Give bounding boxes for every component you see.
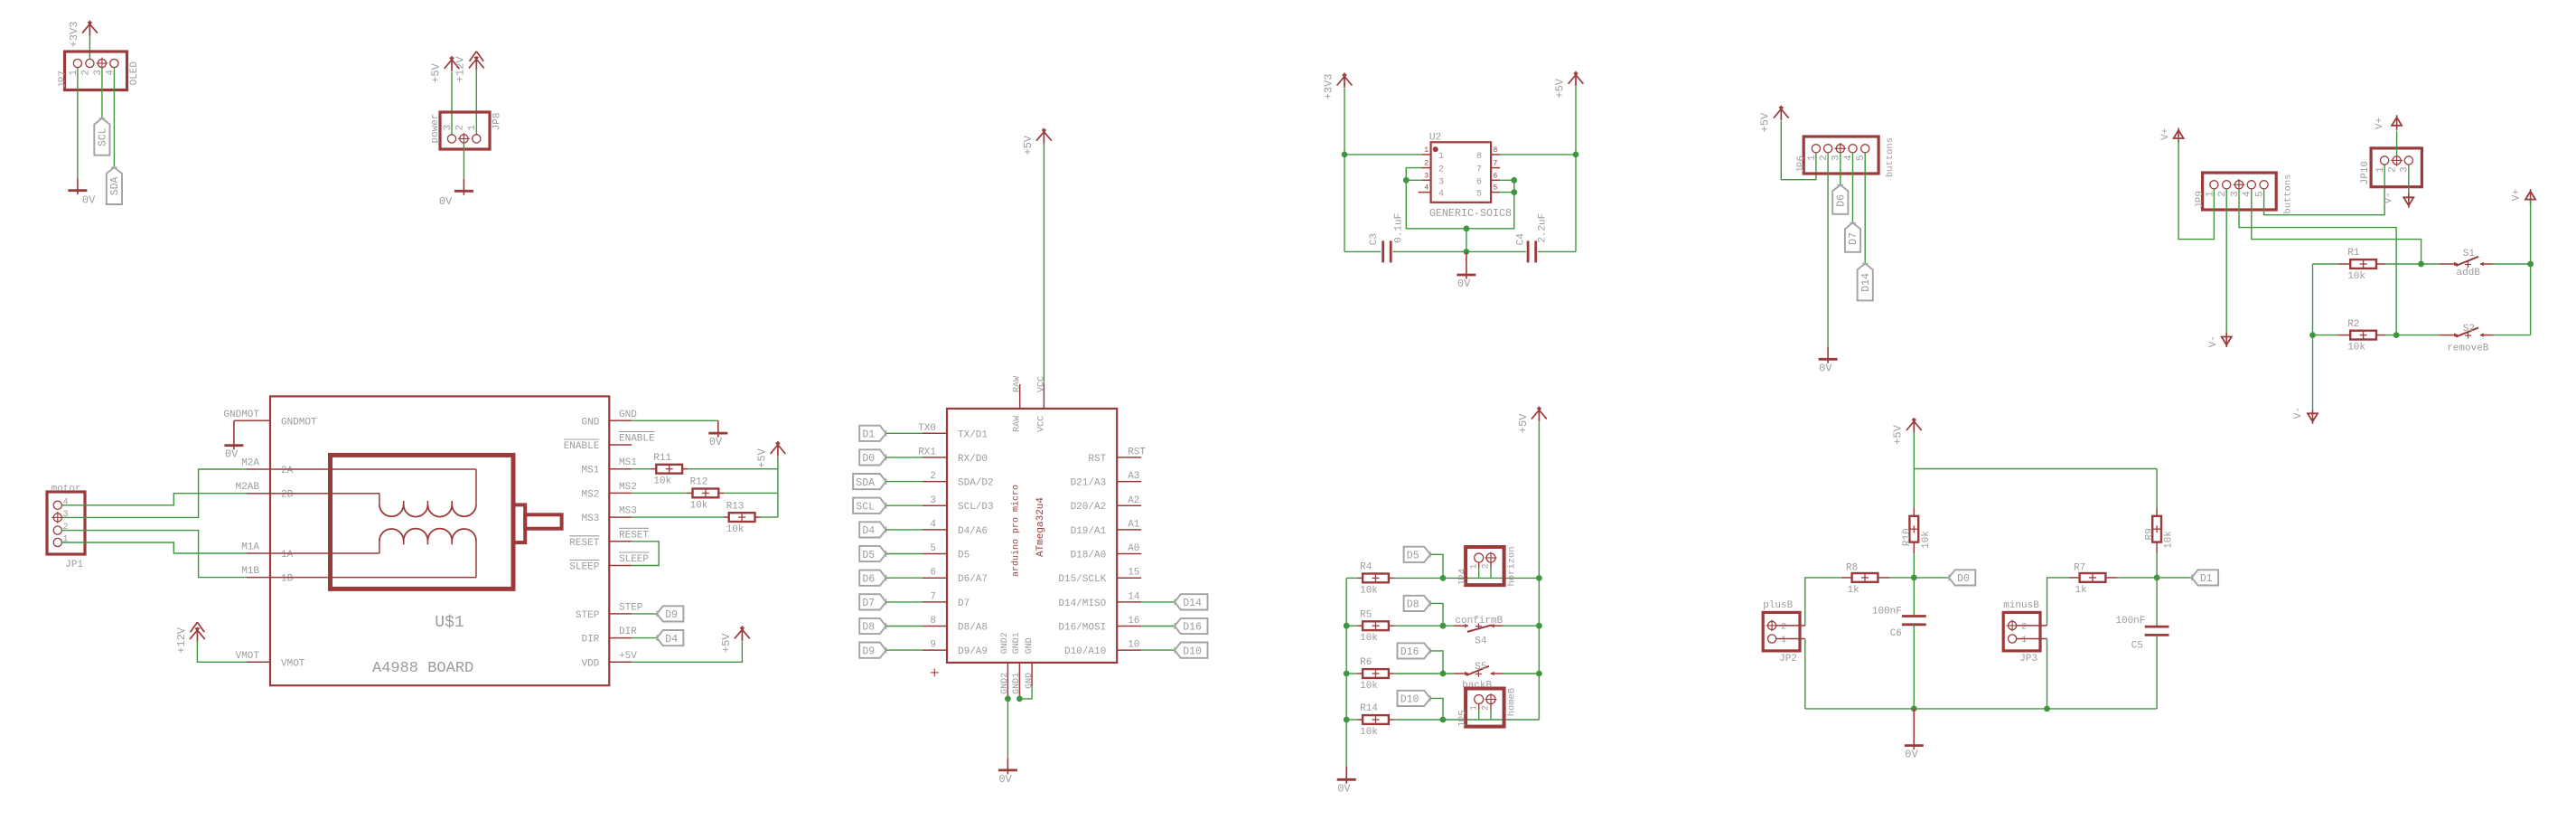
svg-text:V-: V- <box>2384 192 2394 203</box>
svg-text:TX/D1: TX/D1 <box>958 429 988 440</box>
svg-text:D16/MOSI: D16/MOSI <box>1058 623 1106 634</box>
svg-text:9: 9 <box>930 640 936 651</box>
svg-text:GNDMOT: GNDMOT <box>223 410 259 420</box>
svg-text:10k: 10k <box>1360 727 1378 738</box>
svg-text:JP5: JP5 <box>1458 710 1469 728</box>
svg-text:JP3: JP3 <box>2019 654 2037 664</box>
svg-text:+5V: +5V <box>755 448 768 467</box>
svg-text:D8/A8: D8/A8 <box>958 623 988 634</box>
svg-text:0V: 0V <box>709 436 723 448</box>
svg-text:S4: S4 <box>1475 636 1487 647</box>
svg-text:D9: D9 <box>862 646 875 657</box>
svg-text:D5: D5 <box>958 551 970 561</box>
svg-text:D8: D8 <box>862 622 875 634</box>
svg-text:DIR: DIR <box>581 635 599 646</box>
svg-text:1k: 1k <box>2075 585 2088 596</box>
svg-text:1: 1 <box>1424 146 1429 155</box>
svg-text:VDD: VDD <box>581 658 599 669</box>
svg-text:V+: V+ <box>2375 118 2385 129</box>
svg-text:2: 2 <box>1482 563 1492 569</box>
svg-text:ENABLE: ENABLE <box>564 441 600 452</box>
svg-text:+5V: +5V <box>1022 135 1035 155</box>
svg-text:D18/A0: D18/A0 <box>1071 551 1107 561</box>
svg-text:GND1: GND1 <box>1012 632 1022 654</box>
svg-text:2: 2 <box>2388 166 2399 173</box>
svg-text:1k: 1k <box>1848 585 1860 596</box>
svg-text:10k: 10k <box>1360 633 1378 644</box>
svg-text:horizon: horizon <box>1507 546 1518 586</box>
svg-text:1: 1 <box>2021 636 2027 646</box>
svg-text:1: 1 <box>2375 166 2386 173</box>
svg-text:0V: 0V <box>998 773 1012 786</box>
svg-text:V+: V+ <box>2511 189 2522 201</box>
svg-text:10k: 10k <box>2164 531 2175 549</box>
svg-text:15: 15 <box>1128 568 1139 579</box>
svg-text:D14: D14 <box>1183 598 1202 609</box>
svg-text:100nF: 100nF <box>1872 607 1902 617</box>
svg-text:D20/A2: D20/A2 <box>1071 502 1107 513</box>
svg-text:D16: D16 <box>1183 622 1202 634</box>
svg-text:D4: D4 <box>665 634 678 646</box>
svg-text:SCL/D3: SCL/D3 <box>958 502 994 513</box>
svg-text:STEP: STEP <box>619 602 643 613</box>
svg-text:M1B: M1B <box>241 566 259 577</box>
svg-text:0V: 0V <box>1337 782 1351 795</box>
svg-text:GND: GND <box>1025 637 1035 654</box>
svg-text:SLEEP: SLEEP <box>569 562 599 573</box>
svg-text:GND: GND <box>619 410 637 420</box>
svg-text:ATmega32u4: ATmega32u4 <box>1035 497 1046 557</box>
svg-text:1: 1 <box>1469 563 1479 569</box>
svg-text:D1: D1 <box>2200 573 2213 585</box>
svg-text:VMOT: VMOT <box>281 658 305 669</box>
svg-text:2: 2 <box>454 125 465 131</box>
svg-text:R1: R1 <box>2347 248 2360 259</box>
svg-text:arduino pro micro: arduino pro micro <box>1011 485 1022 577</box>
svg-text:+5V: +5V <box>1553 78 1566 98</box>
svg-text:SDA: SDA <box>856 477 875 489</box>
svg-text:JP8: JP8 <box>492 112 503 130</box>
svg-text:A1: A1 <box>1128 519 1140 530</box>
svg-text:M2AB: M2AB <box>236 482 260 493</box>
svg-text:+5V: +5V <box>1517 413 1530 433</box>
svg-text:C5: C5 <box>2131 640 2143 651</box>
svg-text:DIR: DIR <box>619 627 637 637</box>
svg-text:1: 1 <box>1807 155 1818 161</box>
svg-text:+3V3: +3V3 <box>68 22 80 48</box>
svg-text:VCC: VCC <box>1036 376 1046 392</box>
svg-text:D5: D5 <box>1407 551 1419 562</box>
svg-text:SDA: SDA <box>109 176 121 195</box>
svg-text:4: 4 <box>1424 184 1429 193</box>
svg-text:RESET: RESET <box>569 538 599 549</box>
svg-text:R7: R7 <box>2074 563 2085 574</box>
svg-text:RST: RST <box>1128 447 1146 457</box>
svg-text:D7: D7 <box>862 598 875 609</box>
svg-text:RAW: RAW <box>1013 376 1023 392</box>
svg-text:SLEEP: SLEEP <box>619 554 649 565</box>
svg-text:3: 3 <box>930 495 936 506</box>
svg-text:SDA/D2: SDA/D2 <box>958 478 994 489</box>
svg-text:V-: V- <box>2208 335 2219 347</box>
svg-text:+12V: +12V <box>454 56 467 83</box>
svg-text:RESET: RESET <box>619 530 649 541</box>
svg-text:4: 4 <box>1438 190 1444 200</box>
svg-text:D4/A6: D4/A6 <box>958 526 988 537</box>
svg-text:D6: D6 <box>862 573 875 585</box>
svg-text:0V: 0V <box>439 195 453 208</box>
svg-text:R4: R4 <box>1360 562 1372 573</box>
svg-text:1A: 1A <box>281 550 294 561</box>
svg-text:VMOT: VMOT <box>236 651 260 662</box>
svg-text:2: 2 <box>80 70 91 76</box>
svg-text:100nF: 100nF <box>2115 616 2145 627</box>
svg-text:10k: 10k <box>690 500 708 511</box>
svg-text:D6/A7: D6/A7 <box>958 574 988 585</box>
svg-text:2: 2 <box>1438 165 1444 175</box>
svg-text:D15/SCLK: D15/SCLK <box>1058 574 1106 585</box>
svg-text:3: 3 <box>63 510 69 520</box>
svg-text:plusB: plusB <box>1763 600 1793 611</box>
svg-text:2: 2 <box>1781 622 1786 632</box>
svg-text:D0: D0 <box>862 453 875 465</box>
svg-text:JP2: JP2 <box>1779 654 1797 664</box>
svg-text:D14: D14 <box>1860 273 1872 292</box>
svg-text:MS1: MS1 <box>619 457 637 468</box>
svg-text:R14: R14 <box>1360 703 1378 714</box>
svg-text:MS3: MS3 <box>581 514 599 524</box>
svg-text:R6: R6 <box>1360 657 1372 668</box>
svg-text:RAW: RAW <box>1013 416 1023 432</box>
svg-text:RST: RST <box>1088 454 1106 465</box>
svg-text:STEP: STEP <box>576 610 600 621</box>
svg-text:confirmB: confirmB <box>1455 616 1503 627</box>
svg-text:+12V: +12V <box>175 627 188 654</box>
svg-text:10k: 10k <box>726 524 745 535</box>
svg-text:1: 1 <box>1469 705 1479 711</box>
svg-text:GND1: GND1 <box>1012 673 1022 694</box>
svg-text:GND: GND <box>1025 673 1035 689</box>
svg-text:SCL: SCL <box>856 502 875 514</box>
svg-text:addB: addB <box>2457 268 2481 278</box>
svg-text:GNDMOT: GNDMOT <box>281 417 317 428</box>
svg-text:4: 4 <box>930 519 936 530</box>
svg-text:14: 14 <box>1128 591 1140 602</box>
svg-text:C3: C3 <box>1369 233 1380 245</box>
svg-text:2B: 2B <box>281 490 294 501</box>
svg-text:homeB: homeB <box>1507 688 1518 717</box>
svg-text:+5V: +5V <box>1892 424 1905 444</box>
svg-text:GND2: GND2 <box>1000 673 1010 694</box>
svg-text:JP4: JP4 <box>1458 568 1469 586</box>
svg-text:A0: A0 <box>1128 543 1139 554</box>
svg-text:RX/D0: RX/D0 <box>958 454 988 465</box>
svg-text:MS2: MS2 <box>619 482 637 493</box>
svg-text:7: 7 <box>1494 160 1498 168</box>
svg-text:R12: R12 <box>690 477 708 488</box>
svg-text:RX1: RX1 <box>918 447 936 457</box>
svg-text:VCC: VCC <box>1036 416 1046 432</box>
svg-text:motor: motor <box>52 484 81 495</box>
svg-text:R13: R13 <box>726 501 745 512</box>
svg-text:2A: 2A <box>281 466 294 476</box>
svg-text:2: 2 <box>63 523 69 533</box>
svg-text:JP9: JP9 <box>2195 191 2206 209</box>
svg-text:1B: 1B <box>281 574 294 585</box>
svg-text:D16: D16 <box>1400 646 1419 658</box>
svg-text:0V: 0V <box>1905 749 1918 761</box>
svg-text:M1A: M1A <box>241 542 259 553</box>
svg-text:V-: V- <box>2293 407 2304 419</box>
svg-text:D0: D0 <box>1957 573 1970 585</box>
svg-text:JP6: JP6 <box>1796 156 1807 174</box>
svg-text:2: 2 <box>1424 160 1429 168</box>
svg-text:M2A: M2A <box>241 458 259 469</box>
svg-text:V+: V+ <box>2160 128 2171 140</box>
svg-text:MS2: MS2 <box>581 489 599 500</box>
svg-text:5: 5 <box>930 543 936 554</box>
svg-text:buttons: buttons <box>1885 137 1896 177</box>
svg-text:R11: R11 <box>653 453 671 464</box>
svg-text:D7: D7 <box>958 599 970 609</box>
svg-text:0V: 0V <box>82 194 96 207</box>
svg-text:D14/MISO: D14/MISO <box>1058 599 1106 609</box>
svg-text:C6: C6 <box>1890 628 1902 639</box>
svg-text:D1: D1 <box>862 429 875 441</box>
svg-text:D4: D4 <box>862 525 875 537</box>
svg-text:10k: 10k <box>653 476 671 487</box>
svg-text:minusB: minusB <box>2003 600 2039 611</box>
svg-text:JP1: JP1 <box>65 560 83 570</box>
svg-text:SCL: SCL <box>98 127 109 146</box>
svg-text:+5V: +5V <box>1759 112 1772 132</box>
svg-text:5: 5 <box>1494 184 1498 193</box>
svg-text:10k: 10k <box>1360 585 1378 596</box>
svg-text:7: 7 <box>930 591 936 602</box>
svg-text:C4: C4 <box>1515 233 1526 246</box>
svg-text:4: 4 <box>63 497 69 507</box>
svg-text:R5: R5 <box>1360 609 1372 620</box>
svg-text:buttons: buttons <box>2283 174 2294 213</box>
svg-text:0.1uF: 0.1uF <box>1394 213 1405 243</box>
svg-text:D10: D10 <box>1400 694 1419 706</box>
svg-text:10k: 10k <box>2347 343 2365 353</box>
svg-text:10k: 10k <box>2347 271 2365 282</box>
svg-text:+5V: +5V <box>619 651 637 662</box>
svg-text:S5: S5 <box>1475 662 1486 673</box>
svg-text:A4988 BOARD: A4988 BOARD <box>372 660 473 677</box>
svg-text:D5: D5 <box>862 550 875 561</box>
svg-text:+5V: +5V <box>429 62 442 82</box>
svg-text:U2: U2 <box>1429 133 1441 144</box>
svg-text:1: 1 <box>467 125 478 131</box>
svg-text:D9/A9: D9/A9 <box>958 646 988 657</box>
svg-text:0V: 0V <box>1819 362 1832 374</box>
svg-text:10k: 10k <box>1921 531 1932 549</box>
svg-text:5: 5 <box>1476 190 1482 200</box>
svg-text:3: 3 <box>1438 177 1444 187</box>
svg-text:1: 1 <box>63 535 69 545</box>
svg-text:D7: D7 <box>1848 232 1859 245</box>
svg-text:R9: R9 <box>2145 528 2156 540</box>
svg-text:D19/A1: D19/A1 <box>1071 526 1107 537</box>
svg-text:1: 1 <box>1781 636 1786 646</box>
svg-text:JP7: JP7 <box>58 71 69 89</box>
svg-text:GND: GND <box>581 417 599 428</box>
svg-text:R8: R8 <box>1846 563 1858 574</box>
svg-text:D21/A3: D21/A3 <box>1071 478 1107 489</box>
svg-text:0V: 0V <box>225 448 239 461</box>
svg-text:2: 2 <box>930 471 936 482</box>
svg-text:2: 2 <box>1482 705 1492 711</box>
svg-text:7: 7 <box>1476 165 1482 175</box>
svg-text:U$1: U$1 <box>435 614 464 632</box>
svg-text:8: 8 <box>1494 146 1498 155</box>
svg-text:A2: A2 <box>1128 495 1139 506</box>
svg-text:TX0: TX0 <box>918 423 936 434</box>
svg-text:D8: D8 <box>1407 599 1419 611</box>
svg-text:2.2uF: 2.2uF <box>1537 213 1548 243</box>
svg-text:MS1: MS1 <box>581 466 599 476</box>
svg-text:3: 3 <box>443 125 454 131</box>
svg-text:10k: 10k <box>1360 681 1378 692</box>
svg-text:S1: S1 <box>2463 249 2476 259</box>
svg-text:0V: 0V <box>1457 278 1471 290</box>
svg-text:JP10: JP10 <box>2360 161 2371 184</box>
svg-text:1: 1 <box>1438 152 1444 162</box>
svg-text:R10: R10 <box>1902 528 1913 546</box>
svg-text:removeB: removeB <box>2447 344 2489 354</box>
svg-text:6: 6 <box>1494 172 1498 180</box>
svg-text:8: 8 <box>930 616 936 627</box>
svg-text:10: 10 <box>1128 640 1139 651</box>
svg-text:3: 3 <box>1424 172 1429 180</box>
svg-text:D10: D10 <box>1183 646 1202 657</box>
svg-text:+5V: +5V <box>720 633 733 653</box>
svg-text:power: power <box>430 114 441 144</box>
svg-text:GENERIC-SOIC8: GENERIC-SOIC8 <box>1429 207 1512 220</box>
svg-text:D6: D6 <box>1836 194 1848 207</box>
svg-text:8: 8 <box>1476 152 1482 162</box>
svg-text:GND2: GND2 <box>1000 632 1010 654</box>
svg-text:OLED: OLED <box>129 61 140 86</box>
svg-text:2: 2 <box>2021 622 2027 632</box>
svg-text:16: 16 <box>1128 616 1139 627</box>
svg-text:D9: D9 <box>665 609 678 621</box>
svg-text:6: 6 <box>930 568 936 579</box>
svg-text:R2: R2 <box>2347 319 2359 330</box>
svg-text:A3: A3 <box>1128 471 1139 482</box>
svg-text:+3V3: +3V3 <box>1322 73 1335 99</box>
svg-text:MS3: MS3 <box>619 506 637 517</box>
svg-text:S2: S2 <box>2463 324 2475 335</box>
svg-text:ENABLE: ENABLE <box>619 434 655 445</box>
svg-text:6: 6 <box>1476 177 1482 187</box>
svg-text:D10/A10: D10/A10 <box>1064 646 1106 657</box>
